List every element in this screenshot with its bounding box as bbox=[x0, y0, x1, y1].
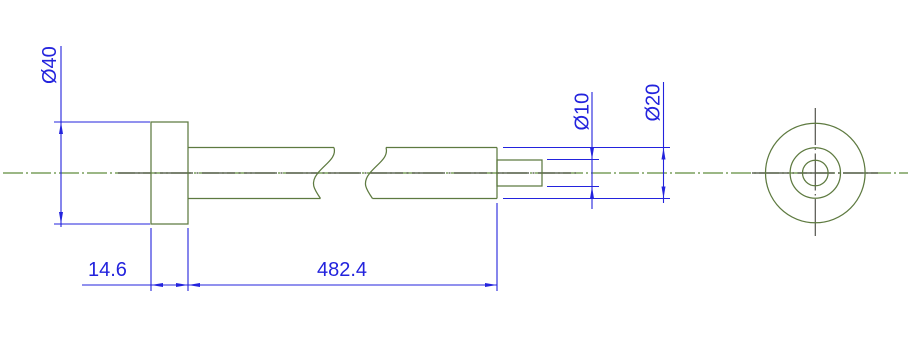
svg-text:14.6: 14.6 bbox=[88, 259, 127, 281]
svg-text:Ø10: Ø10 bbox=[572, 93, 594, 131]
svg-text:482.4: 482.4 bbox=[317, 259, 367, 281]
svg-text:Ø40: Ø40 bbox=[39, 46, 61, 84]
svg-text:Ø20: Ø20 bbox=[643, 84, 665, 122]
